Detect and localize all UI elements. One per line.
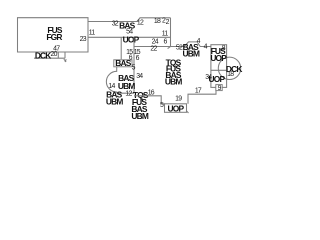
porch UOP box bbox=[165, 104, 187, 113]
wall 54 line bbox=[88, 36, 171, 38]
svg-text:UBM: UBM bbox=[165, 77, 182, 87]
svg-text:UOP: UOP bbox=[168, 103, 185, 113]
svg-text:18: 18 bbox=[154, 18, 161, 25]
wall right vertical 11/6 bbox=[168, 18, 171, 49]
svg-text:23: 23 bbox=[80, 36, 87, 43]
svg-text:11: 11 bbox=[89, 29, 96, 36]
svg-text:32: 32 bbox=[112, 20, 119, 27]
wall 18 line (top) bbox=[140, 17, 171, 19]
svg-text:19: 19 bbox=[175, 96, 182, 103]
svg-text:24: 24 bbox=[152, 39, 159, 46]
wall 32 line bbox=[88, 18, 140, 22]
porch east wall (long) bbox=[133, 37, 135, 92]
svg-text:22: 22 bbox=[150, 46, 157, 53]
svg-text:34: 34 bbox=[136, 73, 143, 80]
svg-text:UBM: UBM bbox=[131, 111, 148, 121]
svg-text:UOP: UOP bbox=[209, 74, 226, 84]
tick porch corner bbox=[186, 111, 188, 113]
svg-text:UOP: UOP bbox=[123, 35, 140, 45]
porch west wall bbox=[120, 37, 122, 59]
section FUS/FGR outline bbox=[18, 18, 89, 52]
wall short bottom (left) bbox=[117, 92, 134, 94]
svg-text:11: 11 bbox=[162, 30, 169, 37]
svg-text:UOP: UOP bbox=[210, 53, 227, 63]
svg-text:17: 17 bbox=[195, 87, 202, 94]
svg-text:UBM: UBM bbox=[182, 48, 199, 58]
wall 22/52 line with 4ft bump bbox=[134, 42, 211, 47]
dimension 9 box bbox=[216, 85, 222, 91]
tower outline bbox=[211, 45, 227, 88]
svg-text:12: 12 bbox=[137, 20, 144, 27]
tower divider bbox=[211, 69, 227, 71]
deck DCK under left building bbox=[34, 52, 66, 62]
svg-text:DCK: DCK bbox=[35, 50, 51, 60]
svg-text:20: 20 bbox=[51, 51, 58, 58]
svg-text:BAS: BAS bbox=[115, 58, 131, 68]
label box BAS (mid left) bbox=[114, 60, 132, 67]
svg-text:18: 18 bbox=[227, 71, 234, 78]
round deck circle bbox=[218, 57, 240, 79]
svg-text:FGR: FGR bbox=[46, 32, 62, 42]
wall right of porch bbox=[188, 87, 216, 103]
svg-text:UBM: UBM bbox=[106, 96, 123, 106]
bay window wall with semicircle bbox=[106, 67, 116, 93]
bottom outline steps bbox=[134, 96, 165, 104]
